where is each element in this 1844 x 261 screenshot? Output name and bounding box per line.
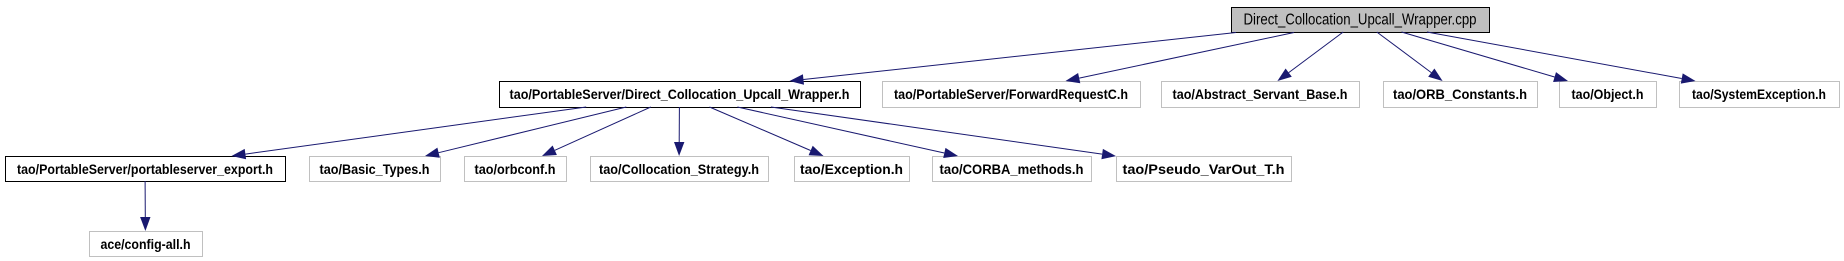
- node tao/PortableServer/ForwardRequestC.h: [883, 82, 1141, 108]
- node tao/CORBA_methods.h: [933, 157, 1092, 182]
- wire: edge Direct_Collocation_Upcall_Wrapper.cpp -> Direct_Collocation_Upcall_Wrapper.h: [790, 33, 1237, 85]
- node tao/PortableServer/portableserver_export.h: [6, 157, 286, 182]
- node tao/Collocation_Strategy.h: [591, 157, 769, 182]
- node tao/Abstract_Servant_Base.h: [1162, 82, 1360, 108]
- node tao/Exception.h: [795, 157, 910, 182]
- node ace/config-all.h: [90, 232, 203, 257]
- node tao/Basic_Types.h: [310, 157, 441, 182]
- node tao/orbconf.h: [465, 157, 567, 182]
- node tao/PortableServer/Direct_Collocation_Upcall_Wrapper.h: [500, 82, 861, 108]
- svg-text:tao/PortableServer/ForwardRequ: tao/PortableServer/ForwardRequestC.h: [894, 87, 1128, 102]
- wire: edge Direct_Collocation_Upcall_Wrapper.h -> orbconf.h: [542, 107, 651, 156]
- svg-text:tao/orbconf.h: tao/orbconf.h: [475, 162, 556, 177]
- wire: edge Direct_Collocation_Upcall_Wrapper.cpp -> ForwardRequestC.h: [1066, 33, 1295, 84]
- wire: edge Direct_Collocation_Upcall_Wrapper.cpp -> ORB_Constants.h: [1377, 32, 1443, 81]
- svg-text:tao/Collocation_Strategy.h: tao/Collocation_Strategy.h: [599, 162, 759, 177]
- svg-text:tao/Abstract_Servant_Base.h: tao/Abstract_Servant_Base.h: [1173, 87, 1348, 102]
- wire: edge Direct_Collocation_Upcall_Wrapper.h -> Exception.h: [710, 107, 824, 156]
- svg-text:tao/Pseudo_VarOut_T.h: tao/Pseudo_VarOut_T.h: [1123, 162, 1285, 177]
- svg-text:tao/ORB_Constants.h: tao/ORB_Constants.h: [1393, 87, 1527, 102]
- node tao/SystemException.h: [1680, 82, 1840, 108]
- svg-text:tao/Exception.h: tao/Exception.h: [800, 162, 903, 177]
- wire: edge Direct_Collocation_Upcall_Wrapper.h -> Collocation_Strategy.h: [674, 107, 684, 156]
- wire: edge Direct_Collocation_Upcall_Wrapper.cpp -> SystemException.h: [1427, 32, 1696, 84]
- wire: edge Direct_Collocation_Upcall_Wrapper.cpp -> Object.h: [1402, 32, 1569, 82]
- svg-text:tao/CORBA_methods.h: tao/CORBA_methods.h: [940, 162, 1084, 177]
- svg-text:tao/Basic_Types.h: tao/Basic_Types.h: [320, 162, 430, 177]
- node tao/ORB_Constants.h: [1384, 82, 1538, 108]
- node tao/Object.h: [1560, 82, 1657, 108]
- svg-text:Direct_Collocation_Upcall_Wrap: Direct_Collocation_Upcall_Wrapper.cpp: [1244, 11, 1477, 28]
- wire: edge Direct_Collocation_Upcall_Wrapper.h -> Pseudo_VarOut_T.h: [771, 107, 1116, 159]
- wire: edge Direct_Collocation_Upcall_Wrapper.h -> CORBA_methods.h: [737, 107, 958, 158]
- svg-text:ace/config-all.h: ace/config-all.h: [101, 237, 191, 252]
- node tao/Pseudo_VarOut_T.h: [1117, 157, 1292, 182]
- wire: edge portableserver_export.h -> config-all.h: [140, 181, 150, 231]
- svg-text:tao/Object.h: tao/Object.h: [1572, 87, 1644, 102]
- wire: edge Direct_Collocation_Upcall_Wrapper.cpp -> Abstract_Servant_Base.h: [1277, 32, 1343, 81]
- svg-text:tao/PortableServer/portableser: tao/PortableServer/portableserver_export…: [17, 162, 273, 177]
- svg-text:tao/PortableServer/Direct_Coll: tao/PortableServer/Direct_Collocation_Up…: [510, 87, 850, 102]
- wire: edge Direct_Collocation_Upcall_Wrapper.h -> portableserver_export.h: [232, 107, 587, 159]
- node Direct_Collocation_Upcall_Wrapper.cpp (root): [1232, 8, 1490, 33]
- svg-text:tao/SystemException.h: tao/SystemException.h: [1692, 87, 1826, 102]
- wire: edge Direct_Collocation_Upcall_Wrapper.h -> Basic_Types.h: [425, 107, 626, 158]
